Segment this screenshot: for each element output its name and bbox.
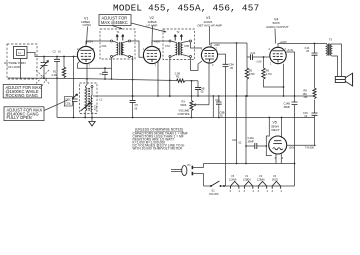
svg-text:7: 7 [155,64,157,68]
svg-text:+95V: +95V [154,39,160,43]
oscillator coil L2 [80,83,98,114]
notes block [133,128,188,151]
svg-text:C6A: C6A [102,44,107,48]
svg-text:L2: L2 [100,98,103,102]
leader line to T1 slugs [112,26,122,29]
V5 heater pins to AC [276,154,281,164]
coupling capacitor C12 [247,43,270,63]
output transformer T3 [325,38,333,56]
V1 plate wire to T1 [86,41,110,46]
svg-text:CONTROL: CONTROL [178,112,191,116]
voltage label +90V [214,43,220,47]
svg-text:I-F AMP: I-F AMP [147,23,158,27]
voltage label +85V [87,39,93,43]
tube V4 50C5 audio output [269,47,287,66]
svg-text:MAX @455KC: MAX @455KC [101,20,128,25]
svg-text:T1: T1 [117,30,121,34]
V5 heater jumper to B- [266,118,272,156]
svg-text:4.7M: 4.7M [266,72,272,76]
main B+ bus [93,95,315,97]
tube V5 35W4 rectifier [269,136,287,160]
voltage label +110V [280,40,288,44]
resistor R5 470K [245,57,255,96]
heater V3 12AV6 [229,174,241,193]
heater V4 50C5 [272,174,283,193]
svg-text:C10: C10 [215,98,220,102]
svg-text:7: 7 [89,64,91,68]
label V2 12BA6 IF AMP [147,16,158,27]
gang mechanical dashed X link [36,70,49,84]
B- bus [57,117,315,119]
L2 winding returns [85,112,92,118]
ground [89,118,95,127]
V2 cathode wire [157,62,159,97]
L2 label [100,98,103,102]
tube V3 12AV6 det avc af [201,47,218,68]
svg-text:CONV: CONV [83,23,92,27]
V3 diode load wire [218,54,235,186]
svg-text:12AV6: 12AV6 [229,177,237,181]
svg-text:.05: .05 [306,49,310,53]
wire volume right leg [212,96,214,118]
svg-text:3: 3 [258,189,260,193]
callout box ADJUST FOR MAX @455KC [99,15,131,26]
capacitor C10 [215,96,224,118]
V1 signal grid stub [76,55,78,57]
svg-text:2: 2 [212,63,214,67]
svg-text:5: 5 [159,47,161,51]
T1 primary return [111,58,113,80]
callout box ADJUST FOR MAX @1600KC [3,85,41,99]
V4 plate wire [278,43,325,48]
svg-text:3: 3 [272,189,274,193]
svg-text:L1: L1 [18,51,21,55]
svg-text:4: 4 [253,189,255,193]
label V5 35W4 RECT [271,121,280,132]
svg-text:+85V: +85V [87,39,93,43]
switch S1 [204,181,226,196]
leader 1400KC to C1B [44,100,68,111]
heater V1 12BE6 [243,174,255,193]
AVC line with R2 [8,71,198,82]
capacitor C2 [53,50,62,79]
svg-text:50C5: 50C5 [272,177,279,181]
gang tuning capacitor C1A [40,57,49,79]
left leg to B- bus [56,78,58,117]
capacitor C4 47 [94,105,98,112]
V5 top feed stub [281,118,283,139]
svg-text:+110V: +110V [280,40,288,44]
svg-text:C12: C12 [251,51,256,55]
svg-text:COIL: COIL [65,102,72,106]
loop antenna dashed enclosure [7,44,37,79]
heater string bus [224,185,295,187]
svg-text:-1.0V: -1.0V [256,59,262,63]
OSC COIL boxed label [65,97,73,107]
svg-text:1: 1 [270,62,272,66]
T1 secondary return with C5 bypass [130,57,139,119]
svg-text:2.2M: 2.2M [52,73,58,77]
svg-text:ROCKING GANG: ROCKING GANG [6,93,38,98]
voltage label +95V [154,39,160,43]
leader V3 label to tube [209,27,211,46]
svg-text:C7A: C7A [165,44,170,48]
svg-text:4: 4 [267,189,269,193]
capacitor C3 [100,67,108,80]
leader V2 label to tube [151,26,154,44]
svg-text:2: 2 [269,47,271,51]
IF transformer T1 [100,29,135,59]
svg-text:WITH 20,000 OHM/VOLT METER: WITH 20,000 OHM/VOLT METER [133,147,183,151]
IF transformer T2 [163,29,195,60]
V1 cathode wire into oscillator coil [85,64,88,88]
resistor R6 4.7M [262,57,284,87]
plate feed riser [236,43,238,96]
svg-text:2.2M: 2.2M [175,71,181,75]
svg-text:OF LOOP: OF LOOP [8,65,21,69]
V3 plate bus [211,42,247,47]
tube V1 12BE6 converter [77,46,95,67]
heater V2 12BA6 [257,174,269,193]
svg-text:C7B: C7B [184,44,189,48]
T2 secondary return to V3 diode [191,58,203,71]
V1 oscillator grid wire [78,62,112,69]
V4 cathode leg [283,64,285,96]
filter capacitor C14B [284,102,298,187]
V2 plate wire to T2 [152,41,169,46]
tube V2 12BA6 IF amplifier [143,46,161,67]
svg-text:.05: .05 [200,90,204,94]
volume control R3 500K [178,81,194,118]
leader V4 label to tube [274,29,277,44]
oscillator trimmer C1B [64,57,78,118]
antenna label OUTSIDE TURN OF LOOP [4,61,26,69]
svg-text:500K: 500K [181,103,187,107]
T2 secondary top to V3 grid [191,42,202,48]
svg-text:12BA6: 12BA6 [257,177,265,181]
line bypass capacitor C11 [232,138,242,145]
svg-text:4: 4 [281,189,283,193]
leader V1 label to tube [87,27,88,45]
callout box ADJUST FOR MAX @1400KC [4,107,44,121]
svg-text:T-8-306: T-8-306 [305,146,314,150]
svg-text:+6.4V: +6.4V [287,48,294,52]
svg-text:105V: 105V [289,146,295,150]
V4 screen wire [286,48,294,102]
leader line to T2 slugs [131,23,166,32]
leader 1600KC to C1A [42,78,47,86]
wire L1 lower lead [20,59,22,79]
svg-text:12BE6: 12BE6 [243,177,251,181]
AC top wire [204,163,295,165]
svg-text:.02: .02 [238,141,242,145]
wire L1 to grid bus [27,53,77,57]
coupling capacitor C9B [195,81,205,97]
svg-text:T2: T2 [177,30,181,34]
svg-text:30MF: 30MF [248,139,255,143]
T2 primary return [169,58,171,97]
svg-text:MODEL 455, 455A, 456, 457: MODEL 455, 455A, 456, 457 [113,2,259,13]
label V3 12AV6 DET AVC A-F AMP [198,16,223,27]
speaker [332,44,353,86]
resistor R1 2.2M [52,57,66,79]
label V4 50C5 AUDIO OUTPUT [266,18,289,29]
bypass capacitor C15 [303,111,318,146]
title MODEL 455, 455A, 456, 457 [113,2,259,13]
svg-text:3: 3 [244,189,246,193]
antenna loop L1 [14,47,28,59]
B- riser to AC line [236,96,238,164]
svg-text:C11: C11 [232,138,237,142]
svg-text:7: 7 [216,47,218,51]
svg-text:30MF: 30MF [284,105,291,109]
T1 secondary top to V2 grid [131,41,144,57]
V3 cathode to volume wiper [194,62,210,106]
AC line plug P1 [171,163,204,186]
svg-text:3: 3 [230,189,232,193]
svg-text:AUDIO OUTPUT: AUDIO OUTPUT [266,25,289,29]
svg-text:R1: R1 [53,70,57,74]
V5 cathode output line [287,145,316,150]
svg-text:T3: T3 [329,38,333,42]
svg-text:+90V: +90V [214,43,220,47]
B- return riser [245,95,247,164]
tone capacitor C13 [305,44,318,89]
node dots on grid bus [43,56,74,58]
svg-text:C2: C2 [53,50,57,54]
resistor R8 150 ohm 2W [303,88,317,113]
svg-text:470K: 470K [249,72,255,76]
svg-text:ON-OFF: ON-OFF [209,192,219,196]
svg-text:RECT: RECT [272,128,280,132]
filter capacitor C14A [245,136,267,149]
svg-text:.05: .05 [230,66,234,70]
svg-text:5: 5 [93,47,95,51]
svg-text:2W: 2W [304,95,308,99]
svg-text:FULLY OPEN: FULLY OPEN [7,115,32,120]
svg-text:4: 4 [282,156,284,160]
svg-text:10: 10 [58,50,61,54]
label V1 12BE6 CONV [81,16,91,27]
svg-text:P1: P1 [188,163,192,167]
svg-text:4: 4 [239,189,241,193]
